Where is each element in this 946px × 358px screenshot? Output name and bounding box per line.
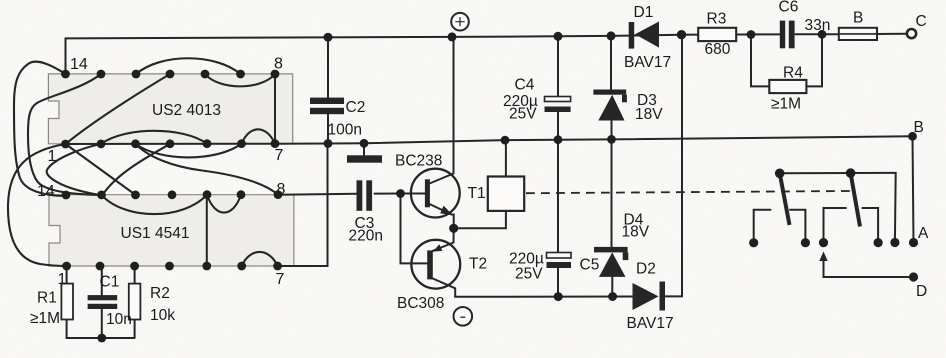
svg-text:US2 4013: US2 4013: [152, 102, 221, 119]
svg-text:B: B: [853, 10, 863, 27]
svg-text:10n: 10n: [106, 311, 132, 328]
svg-text:C5: C5: [580, 257, 600, 274]
svg-text:T2: T2: [469, 256, 487, 273]
svg-text:≥1M: ≥1M: [30, 310, 60, 327]
svg-text:14: 14: [37, 183, 55, 200]
svg-text:680: 680: [705, 41, 731, 58]
svg-text:1: 1: [58, 271, 67, 288]
svg-text:BAV17: BAV17: [627, 315, 674, 332]
svg-text:C4: C4: [515, 77, 535, 94]
svg-text:B: B: [914, 119, 924, 136]
svg-text:10k: 10k: [150, 307, 175, 324]
svg-text:D: D: [916, 283, 927, 300]
svg-text:R4: R4: [783, 65, 803, 82]
svg-text:C1: C1: [100, 274, 120, 291]
svg-text:25V: 25V: [509, 106, 537, 123]
svg-text:A: A: [918, 225, 929, 242]
svg-text:1: 1: [48, 148, 57, 165]
svg-text:25V: 25V: [515, 266, 543, 283]
svg-text:BAV17: BAV17: [624, 54, 671, 71]
svg-text:C6: C6: [779, 0, 799, 16]
svg-text:33n: 33n: [805, 17, 831, 34]
svg-text:14: 14: [70, 56, 88, 73]
svg-text:BC308: BC308: [397, 295, 444, 312]
svg-text:≥1M: ≥1M: [771, 96, 801, 113]
svg-text:R3: R3: [707, 11, 727, 28]
svg-text:18V: 18V: [622, 224, 650, 241]
svg-text:8: 8: [274, 56, 283, 73]
svg-text:100n: 100n: [328, 122, 362, 139]
svg-text:R2: R2: [150, 285, 170, 302]
svg-text:R1: R1: [37, 290, 57, 307]
svg-text:US1 4541: US1 4541: [121, 225, 190, 242]
svg-text:D1: D1: [634, 4, 654, 21]
svg-text:18V: 18V: [635, 106, 663, 123]
svg-text:C: C: [916, 13, 927, 30]
svg-text:220n: 220n: [349, 228, 383, 245]
svg-text:C2: C2: [346, 99, 366, 116]
svg-text:8: 8: [277, 181, 286, 198]
svg-text:T1: T1: [468, 185, 486, 202]
svg-text:D2: D2: [636, 261, 656, 278]
svg-text:7: 7: [275, 147, 284, 164]
svg-text:BC238: BC238: [395, 153, 442, 170]
svg-text:7: 7: [276, 271, 285, 288]
